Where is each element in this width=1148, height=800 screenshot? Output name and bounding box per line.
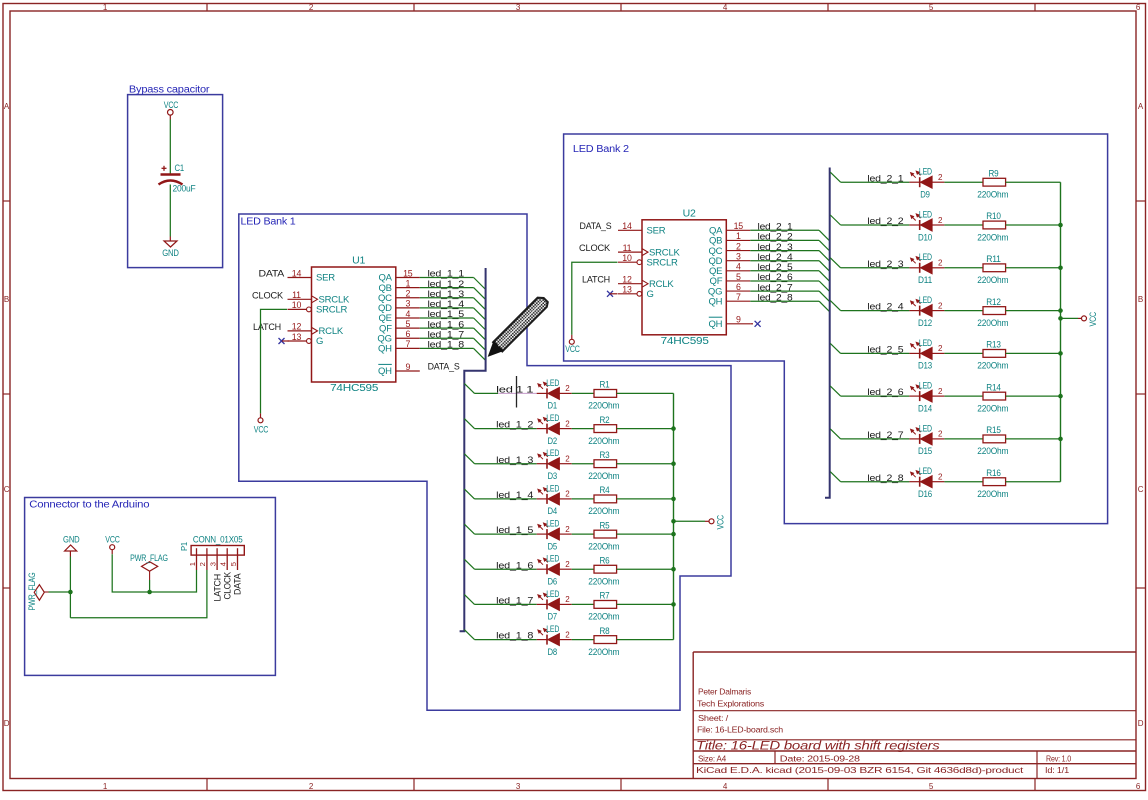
ground GND (connector) — [63, 535, 80, 551]
svg-text:9: 9 — [736, 315, 741, 325]
bus entry — [830, 301, 840, 311]
power symbol VCC (bypass) — [164, 100, 179, 115]
wire U1 output — [420, 297, 474, 299]
svg-text:led_2_5: led_2_5 — [867, 345, 903, 356]
wire LED to R — [944, 352, 983, 354]
junction — [671, 461, 676, 466]
svg-text:R4: R4 — [600, 485, 610, 495]
svg-text:74HC595: 74HC595 — [661, 336, 710, 347]
bus entry — [474, 288, 486, 300]
svg-text:13: 13 — [622, 285, 632, 295]
bus entry — [819, 251, 830, 262]
wire VCC to U2.SRCLR — [571, 335, 573, 340]
svg-text:7: 7 — [405, 339, 410, 349]
no-connect X at U1.G — [279, 338, 289, 344]
bus entry — [830, 258, 840, 268]
svg-text:File: 16-LED-board.sch: File: 16-LED-board.sch — [697, 725, 783, 735]
svg-text:13: 13 — [292, 332, 302, 342]
bus entry — [464, 594, 474, 604]
bus entry — [474, 308, 486, 320]
resistor R6 220Ohm — [588, 555, 619, 586]
svg-text:D2: D2 — [548, 436, 558, 446]
junction — [1058, 223, 1063, 228]
svg-text:SRCLR: SRCLR — [316, 305, 348, 316]
wire C1 to GND — [169, 185, 171, 237]
svg-text:R11: R11 — [986, 254, 1001, 264]
svg-text:11: 11 — [292, 290, 301, 300]
wire VCC rail bank 2 — [1060, 182, 1062, 482]
LED D8 — [537, 624, 572, 657]
wire LED to R — [572, 498, 594, 500]
svg-text:CLOCK: CLOCK — [252, 290, 284, 301]
bus entry — [830, 472, 840, 482]
wire led_1_3 — [475, 463, 537, 465]
LED D13 — [909, 338, 944, 371]
svg-text:SRCLR: SRCLR — [647, 257, 679, 268]
svg-text:led_1_3: led_1_3 — [496, 455, 533, 466]
IC U2 74HC595 shift register — [618, 208, 750, 346]
svg-text:3: 3 — [208, 562, 217, 566]
svg-text:Bypass capacitor: Bypass capacitor — [129, 84, 210, 95]
wire U2 output — [750, 260, 819, 262]
bus entry — [830, 343, 840, 353]
svg-text:10: 10 — [622, 253, 632, 263]
svg-text:Id: 1/1: Id: 1/1 — [1045, 765, 1070, 775]
svg-text:R12: R12 — [986, 297, 1001, 307]
junction — [671, 532, 676, 537]
junction — [671, 426, 676, 431]
wire LED to R — [572, 463, 594, 465]
bus entry — [464, 419, 474, 429]
svg-text:led_2_7: led_2_7 — [867, 430, 903, 441]
svg-text:220Ohm: 220Ohm — [588, 612, 619, 622]
IC U1 74HC595 shift register — [288, 256, 420, 395]
LED D10 — [909, 209, 944, 242]
power flag PWR_FLAG (VCC side) — [130, 553, 168, 580]
svg-text:G: G — [647, 289, 654, 300]
svg-text:220Ohm: 220Ohm — [977, 403, 1008, 413]
svg-text:PWR_FLAG: PWR_FLAG — [27, 572, 37, 610]
junction — [147, 590, 152, 595]
wire R to VCC rail — [617, 428, 674, 430]
svg-text:led_2_2: led_2_2 — [867, 216, 903, 227]
svg-text:220Ohm: 220Ohm — [588, 401, 619, 411]
svg-text:1: 1 — [736, 231, 741, 241]
wire LED to R — [944, 224, 983, 226]
svg-text:LED: LED — [546, 378, 559, 388]
svg-text:C: C — [4, 485, 10, 494]
svg-text:2: 2 — [565, 455, 570, 464]
svg-text:200uF: 200uF — [173, 184, 197, 194]
resistor R1 220Ohm — [588, 380, 619, 411]
svg-text:VCC: VCC — [565, 344, 580, 354]
power symbol VCC (bank 1 rail) — [709, 514, 726, 529]
svg-text:D6: D6 — [548, 577, 558, 587]
wire VCC to C1 — [169, 115, 171, 119]
svg-text:2: 2 — [736, 241, 741, 251]
LED D4 — [537, 483, 572, 516]
svg-text:15: 15 — [734, 221, 744, 231]
svg-text:220Ohm: 220Ohm — [977, 232, 1008, 242]
wire PWR_FLAG to GND net — [49, 591, 71, 593]
LED D16 — [909, 466, 944, 499]
svg-text:220Ohm: 220Ohm — [977, 275, 1008, 285]
svg-text:220Ohm: 220Ohm — [977, 318, 1008, 328]
resistor R7 220Ohm — [588, 591, 619, 622]
svg-text:220Ohm: 220Ohm — [977, 489, 1008, 499]
svg-text:GND: GND — [162, 248, 179, 258]
bus entry — [830, 215, 840, 225]
svg-text:Rev: 1.0: Rev: 1.0 — [1046, 753, 1071, 763]
resistor R14 220Ohm — [977, 382, 1008, 413]
power flag PWR_FLAG (GND side) — [27, 572, 49, 610]
svg-text:LED: LED — [919, 423, 932, 433]
svg-text:LED: LED — [546, 519, 559, 529]
bus entry — [474, 298, 486, 310]
svg-text:LED: LED — [546, 589, 559, 599]
bus entry — [830, 386, 840, 396]
svg-text:D11: D11 — [918, 275, 932, 285]
svg-text:led_1_8: led_1_8 — [496, 631, 533, 642]
wire U2 output — [750, 290, 819, 292]
wire R to VCC rail — [617, 392, 674, 394]
svg-text:LED: LED — [546, 624, 559, 634]
svg-text:4: 4 — [736, 262, 741, 272]
wire LED to R — [944, 310, 983, 312]
wire R to VCC rail — [1006, 395, 1061, 397]
svg-text:LATCH: LATCH — [212, 574, 222, 602]
svg-text:VCC: VCC — [1088, 311, 1098, 326]
wire LED to R — [572, 639, 594, 641]
note box: Bypass capacitor — [128, 84, 223, 267]
svg-text:R6: R6 — [600, 555, 610, 565]
wire U2 output — [750, 270, 819, 272]
bus entry — [464, 454, 474, 464]
svg-text:CONN_01X05: CONN_01X05 — [193, 535, 243, 545]
svg-text:10: 10 — [292, 300, 302, 310]
svg-text:LED: LED — [546, 554, 559, 564]
wire LED to R — [572, 428, 594, 430]
svg-text:Tech Explorations: Tech Explorations — [697, 699, 764, 709]
wire U2 output — [750, 229, 819, 231]
junction — [671, 497, 676, 502]
wire LED to R — [944, 181, 983, 183]
svg-text:D16: D16 — [918, 489, 932, 499]
LED D1 — [537, 378, 572, 411]
junction — [1058, 316, 1063, 321]
svg-text:LED: LED — [546, 483, 559, 493]
svg-text:14: 14 — [292, 268, 302, 278]
LED D12 — [909, 295, 944, 328]
svg-text:VCC: VCC — [716, 514, 726, 529]
power symbol VCC (bank 2 rail) — [1082, 311, 1099, 326]
node DATA (label at P1.5) — [233, 573, 243, 595]
svg-text:12: 12 — [292, 322, 302, 332]
wire R to VCC rail — [1006, 310, 1061, 312]
resistor R15 220Ohm — [977, 425, 1008, 456]
pin 3 of P1 — [216, 548, 218, 570]
svg-text:led_2_4: led_2_4 — [867, 302, 903, 313]
svg-text:DATA_S: DATA_S — [580, 221, 612, 232]
ground GND (bypass) — [162, 241, 179, 258]
svg-text:Size: A4: Size: A4 — [698, 753, 726, 763]
wire U2 output — [750, 250, 819, 252]
wire led_1_4 — [475, 498, 537, 500]
svg-text:U2: U2 — [683, 208, 697, 219]
svg-text:PWR_FLAG: PWR_FLAG — [130, 553, 168, 563]
bus entry — [474, 328, 486, 340]
svg-text:CLOCK: CLOCK — [579, 243, 611, 254]
wire R to VCC rail — [1006, 267, 1061, 269]
svg-text:LED: LED — [919, 209, 932, 219]
svg-text:R3: R3 — [600, 450, 610, 460]
svg-text:D10: D10 — [918, 232, 932, 242]
wire led_2_7 — [841, 438, 910, 440]
svg-text:led_2_3: led_2_3 — [867, 259, 903, 270]
svg-text:led_2_6: led_2_6 — [867, 387, 903, 398]
svg-text:D7: D7 — [548, 612, 558, 622]
svg-text:2: 2 — [565, 525, 570, 534]
wire U1 output — [420, 277, 474, 279]
svg-text:LED: LED — [919, 167, 932, 177]
wire R to VCC rail — [617, 463, 674, 465]
wire U2 output — [750, 280, 819, 282]
svg-text:220Ohm: 220Ohm — [588, 506, 619, 516]
svg-text:220Ohm: 220Ohm — [588, 471, 619, 481]
note box: LED Bank 1 — [239, 214, 731, 710]
svg-text:LED: LED — [546, 413, 559, 423]
svg-text:3: 3 — [405, 299, 410, 309]
svg-text:D: D — [1138, 719, 1144, 728]
bus entry — [819, 261, 830, 272]
svg-text:D12: D12 — [918, 318, 932, 328]
bus entry — [464, 559, 474, 569]
wire PWR_FLAG2 stem — [149, 580, 151, 592]
wire LED to R — [572, 533, 594, 535]
svg-text:D3: D3 — [548, 471, 558, 481]
svg-text:A: A — [1138, 102, 1144, 111]
wire GND down — [69, 551, 71, 557]
svg-text:R13: R13 — [986, 340, 1001, 350]
svg-text:DATA: DATA — [259, 269, 285, 280]
wire led_1_6 — [475, 568, 537, 570]
node CLOCK (label at P1.4) — [223, 572, 233, 600]
pencil mouse cursor — [489, 298, 548, 356]
junction — [671, 602, 676, 607]
svg-text:VCC: VCC — [164, 100, 179, 110]
svg-text:2: 2 — [405, 289, 410, 299]
wire U2 output — [750, 239, 819, 241]
svg-text:led_1_6: led_1_6 — [496, 560, 533, 571]
svg-text:LED: LED — [546, 448, 559, 458]
junction — [671, 519, 676, 524]
svg-text:9: 9 — [405, 362, 410, 372]
svg-text:2: 2 — [565, 384, 570, 393]
svg-text:Title: 16-LED board with shift: Title: 16-LED board with shift registers — [696, 741, 940, 753]
LED D11 — [909, 252, 944, 285]
svg-text:QH: QH — [708, 319, 722, 330]
svg-text:D9: D9 — [920, 190, 930, 200]
svg-text:R1: R1 — [600, 380, 610, 390]
wire R to VCC rail — [617, 498, 674, 500]
wire led_1_2 — [475, 428, 537, 430]
note box: Connector to the Arduino — [25, 498, 276, 676]
wire rail to VCC (bank 1) — [674, 520, 706, 522]
svg-text:5: 5 — [229, 562, 238, 566]
svg-text:220Ohm: 220Ohm — [588, 541, 619, 551]
svg-text:LED: LED — [919, 252, 932, 262]
svg-text:D5: D5 — [548, 541, 558, 551]
svg-text:Date: 2015-09-28: Date: 2015-09-28 — [780, 753, 861, 763]
wire LED to R — [944, 267, 983, 269]
capacitor C1 200uF — [159, 163, 197, 194]
junction — [68, 590, 73, 595]
svg-text:2: 2 — [565, 560, 570, 569]
resistor R4 220Ohm — [588, 485, 619, 516]
wire LED to R — [944, 481, 983, 483]
wire R to VCC rail — [1006, 438, 1061, 440]
resistor R2 220Ohm — [588, 415, 619, 446]
svg-text:R5: R5 — [600, 520, 610, 530]
wire U1 output — [420, 327, 474, 329]
svg-text:led_1_4: led_1_4 — [496, 490, 533, 501]
svg-text:SER: SER — [316, 273, 335, 284]
svg-text:P1: P1 — [179, 542, 189, 551]
bus entry — [464, 489, 474, 499]
svg-text:14: 14 — [622, 221, 632, 231]
svg-text:A: A — [4, 102, 10, 111]
bus entry — [474, 338, 486, 350]
pin 4 of P1 — [226, 548, 228, 570]
svg-text:220Ohm: 220Ohm — [588, 647, 619, 657]
power symbol VCC (connector) — [105, 535, 120, 550]
bus entry — [464, 630, 474, 640]
svg-text:R16: R16 — [986, 468, 1001, 478]
bus entry — [464, 524, 474, 534]
svg-text:R7: R7 — [600, 591, 610, 601]
LED D7 — [537, 589, 572, 622]
LED D9 — [909, 167, 944, 200]
svg-text:B: B — [1138, 295, 1143, 304]
LED D3 — [537, 448, 572, 481]
svg-text:led_1_7: led_1_7 — [496, 596, 533, 607]
svg-text:D1: D1 — [548, 401, 558, 411]
wire R to VCC rail — [617, 568, 674, 570]
resistor R10 220Ohm — [977, 211, 1008, 242]
bus entry — [819, 240, 830, 251]
svg-text:D8: D8 — [548, 647, 558, 657]
svg-text:220Ohm: 220Ohm — [977, 361, 1008, 371]
svg-text:2: 2 — [565, 490, 570, 499]
svg-text:D4: D4 — [548, 506, 558, 516]
svg-text:R9: R9 — [989, 168, 999, 178]
svg-text:D13: D13 — [918, 361, 932, 371]
svg-text:12: 12 — [622, 275, 632, 285]
svg-text:220Ohm: 220Ohm — [977, 190, 1008, 200]
svg-text:D: D — [4, 719, 10, 728]
title block — [693, 652, 1136, 779]
svg-text:DATA_S: DATA_S — [428, 362, 460, 373]
wire R to VCC rail — [1006, 224, 1061, 226]
wire led_2_4 — [841, 310, 910, 312]
pin 5 of P1 — [237, 548, 239, 570]
svg-text:220Ohm: 220Ohm — [588, 436, 619, 446]
wire R to VCC rail — [617, 533, 674, 535]
svg-text:LED: LED — [919, 295, 932, 305]
wire led_2_1 — [841, 181, 910, 183]
svg-text:CLOCK: CLOCK — [223, 572, 233, 600]
wire LED to R — [944, 438, 983, 440]
junction — [1058, 437, 1063, 442]
wire R to VCC rail — [1006, 181, 1061, 183]
no-connect X at U2 pin 9 — [750, 321, 760, 327]
junction — [1058, 266, 1063, 271]
svg-text:C1: C1 — [175, 163, 185, 173]
junction — [1058, 351, 1063, 356]
svg-text:R2: R2 — [600, 415, 610, 425]
wire U1 output — [420, 337, 474, 339]
wire led_2_3 — [841, 267, 910, 269]
bus entry — [474, 278, 486, 290]
wire LED to R — [572, 392, 594, 394]
svg-text:led_2_1: led_2_1 — [867, 173, 903, 184]
svg-text:B: B — [4, 295, 9, 304]
svg-text:SER: SER — [647, 226, 666, 237]
svg-text:led 1 1: led 1 1 — [496, 385, 533, 396]
junction — [671, 567, 676, 572]
bus entry — [474, 348, 486, 360]
bus entry — [819, 271, 830, 282]
wire R to VCC rail — [617, 639, 674, 641]
text cursor caret — [516, 376, 518, 408]
svg-text:4: 4 — [405, 309, 410, 319]
wire rail to VCC (bank 2) — [1061, 317, 1079, 319]
resistor R5 220Ohm — [588, 520, 619, 551]
bus entry — [464, 383, 474, 393]
svg-text:11: 11 — [623, 243, 632, 253]
svg-text:Sheet: /: Sheet: / — [698, 713, 729, 723]
pin 1 of P1 — [196, 548, 198, 570]
svg-text:5: 5 — [736, 272, 741, 282]
resistor R8 220Ohm — [588, 626, 619, 657]
svg-text:15: 15 — [403, 268, 413, 278]
wire U1 output — [420, 307, 474, 309]
wire LED to R — [572, 603, 594, 605]
wire VCC to U1.SRCLR — [260, 413, 262, 418]
wire U2 output — [750, 300, 819, 302]
wire LED to R — [944, 395, 983, 397]
wire led_1_8 — [475, 639, 537, 641]
svg-text:6: 6 — [405, 329, 410, 339]
bus entry — [819, 291, 830, 302]
svg-text:DATA: DATA — [233, 573, 243, 595]
junction — [1058, 394, 1063, 399]
wire R to VCC rail — [1006, 352, 1061, 354]
svg-text:Peter Dalmaris: Peter Dalmaris — [698, 687, 751, 697]
bus entry — [819, 301, 830, 312]
wire U1 output — [420, 287, 474, 289]
LED D15 — [909, 423, 944, 456]
bus entry — [819, 230, 830, 241]
LED D2 — [537, 413, 572, 446]
svg-text:VCC: VCC — [254, 425, 269, 435]
LED D5 — [537, 519, 572, 552]
svg-text:1: 1 — [188, 562, 197, 566]
LED D6 — [537, 554, 572, 587]
svg-text:GND: GND — [63, 535, 80, 545]
svg-text:led_1_2: led_1_2 — [496, 420, 533, 431]
svg-text:220Ohm: 220Ohm — [588, 577, 619, 587]
